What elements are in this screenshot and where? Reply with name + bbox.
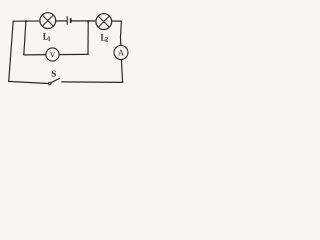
wire left side: [9, 21, 14, 81]
node junction T2: [87, 20, 89, 22]
lamp L1: [40, 13, 56, 29]
wire right side: [121, 21, 123, 82]
lamp L2: [96, 14, 112, 30]
battery B1 short plate: [70, 18, 72, 23]
label L1: [43, 33, 50, 40]
wire bottom left segment: [9, 81, 48, 83]
wire bottom right segment: [62, 81, 123, 84]
voltmeter V: [46, 48, 59, 61]
label L2: [101, 34, 108, 41]
wire voltmeter branch horizontal: [24, 53, 88, 56]
wire voltmeter branch right riser: [87, 21, 89, 54]
switch S lever: [51, 78, 59, 82]
wire top (battery left segment): [13, 20, 67, 22]
paper background: [0, 0, 152, 93]
switch S pivot: [49, 82, 52, 85]
wire voltmeter branch left riser: [24, 21, 26, 55]
label S: [52, 71, 56, 77]
wire top (battery right segment): [71, 20, 122, 22]
node junction T1: [25, 20, 27, 22]
ammeter A: [114, 46, 128, 60]
battery B1 long plate: [66, 16, 68, 24]
